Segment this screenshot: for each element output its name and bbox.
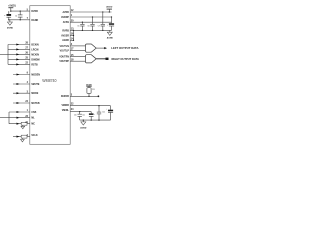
capacitor C1 (electrolytic, +5V decoupling) — [4, 11, 11, 20]
svg-text:MC: MC — [31, 124, 35, 126]
wire pin 18 VOUTRP — [59, 58, 85, 63]
wire pin 17 VOUTLP — [60, 48, 86, 53]
svg-text:RIGHT OUTPUT DATA: RIGHT OUTPUT DATA — [112, 57, 139, 61]
bracket (audio data bus) — [0, 45, 8, 65]
wire + pin 24 MUTEB — [13, 100, 40, 105]
svg-text:SMUTE: SMUTE — [31, 84, 40, 86]
wire + pin 21 MC (with pull-down) — [9, 122, 35, 129]
svg-text:C10: C10 — [74, 115, 77, 117]
svg-text:C12: C12 — [102, 112, 105, 114]
wire + pin 9 MODEN — [13, 73, 40, 77]
svg-text:+: + — [106, 108, 107, 110]
power flag +5V(D) — [8, 5, 16, 12]
svg-text:AGND: AGND — [62, 39, 69, 42]
svg-text:AVDD: AVDD — [106, 6, 112, 9]
wire pin 22 VMIDR rail — [61, 102, 110, 107]
wire pin 3 ZEROB with node — [61, 94, 99, 99]
capacitor C12 (VMIDR ceramic) — [97, 106, 105, 120]
power flag AVDD (pull-up) — [86, 83, 92, 87]
svg-text:MODEN: MODEN — [31, 75, 40, 77]
wire + pin 27 LRCIN — [8, 48, 39, 52]
capacitor C13 (VMIDR electrolytic) — [106, 106, 113, 120]
svg-text:+: + — [107, 24, 108, 26]
wire rail / pin 1 AVDDP — [61, 14, 112, 19]
ground AGND (VMID) — [80, 120, 87, 129]
svg-text:DGND: DGND — [31, 20, 38, 22]
svg-text:LEFT OUTPUT DATA: LEFT OUTPUT DATA — [111, 46, 138, 50]
wire left output + arrow — [96, 47, 107, 49]
svg-text:DVDD: DVDD — [31, 11, 38, 13]
svg-text:MODE: MODE — [31, 93, 38, 95]
wire + pin 25 DIN/DM — [8, 58, 40, 62]
wire rail / pin 20 AVSS — [63, 19, 112, 24]
svg-text:ZEROB: ZEROB — [61, 96, 69, 98]
power flag AVDD (analog supply) — [106, 6, 112, 12]
svg-text:VOUTLP: VOUTLP — [60, 50, 70, 52]
capacitor C10 (VMIDL ceramic) — [74, 112, 82, 121]
resistor R1 (pull-up) — [87, 88, 95, 97]
svg-text:VOUTLN: VOUTLN — [59, 46, 69, 48]
svg-text:AVDD: AVDD — [63, 11, 70, 14]
pin 7 DGND — [27, 18, 39, 22]
capacitor C2 (ceramic, +5V decoupling) — [15, 11, 22, 20]
wire pin 4 VOUTLN — [59, 43, 85, 48]
capacitor C6 — [87, 17, 94, 30]
svg-text:MCKIN: MCKIN — [31, 54, 39, 56]
svg-text:CSB: CSB — [31, 112, 36, 114]
svg-text:RVRB: RVRB — [62, 30, 69, 32]
svg-text:+: + — [94, 114, 95, 116]
svg-text:VMIDL: VMIDL — [62, 110, 70, 112]
svg-text:VMIDR: VMIDR — [61, 105, 69, 107]
wire + pin 28 BCKIN — [8, 43, 39, 47]
svg-text:R1: R1 — [92, 89, 94, 91]
svg-text:24: 24 — [71, 108, 74, 111]
wire + pin 2 SCLK (with pull-down) — [13, 135, 38, 142]
svg-text:22: 22 — [71, 102, 74, 105]
wire DVDD rail — [10, 10, 30, 11]
capacitor C11 (VMIDL electrolytic) — [82, 112, 95, 121]
wire AVDD rail / pin 12 AVDD — [63, 9, 112, 14]
svg-text:ML: ML — [31, 118, 35, 120]
svg-text:AVSSR: AVSSR — [61, 34, 69, 37]
svg-text:AGND: AGND — [80, 126, 87, 129]
svg-text:RSTB: RSTB — [31, 64, 38, 66]
svg-text:DIN/DM: DIN/DM — [31, 59, 39, 61]
svg-text:MUTEB: MUTEB — [31, 103, 40, 105]
wire + pin 23 ML — [9, 116, 35, 120]
svg-text:LRCIN: LRCIN — [31, 49, 38, 51]
wire right output + square terminal — [96, 58, 108, 60]
wire pin 15 VOUTRN — [59, 54, 85, 59]
svg-text:AVDDP: AVDDP — [61, 16, 69, 19]
summing buffer U3 (right channel) — [86, 55, 97, 63]
svg-text:VOUTRP: VOUTRP — [59, 61, 69, 63]
svg-text:+5V(D): +5V(D) — [8, 5, 16, 8]
wire DGND rail — [8, 19, 30, 20]
wire + pin 22 RSTB — [8, 63, 38, 67]
summing buffer U2 (left channel) — [86, 44, 97, 52]
wire + pin 26 MCKIN — [8, 53, 39, 57]
svg-text:+: + — [4, 15, 6, 17]
svg-text:C6: C6 — [87, 26, 89, 28]
capacitor C7 — [98, 12, 105, 30]
svg-text:C2: C2 — [15, 16, 17, 18]
wire + pin 1 CSB — [9, 110, 37, 114]
svg-text:VOUTRN: VOUTRN — [59, 57, 69, 59]
svg-text:AVSS: AVSS — [63, 21, 70, 24]
svg-text:C7: C7 — [98, 26, 100, 28]
svg-text:DGND: DGND — [7, 27, 14, 29]
svg-text:AGND: AGND — [107, 36, 114, 39]
op-amp U1 WM8740 DAC chip body — [30, 6, 70, 145]
wire + pin 3 MODE — [13, 91, 39, 95]
ground AGND (analog) — [107, 30, 114, 39]
svg-text:BCKIN: BCKIN — [31, 45, 39, 47]
svg-text:C5: C5 — [77, 26, 79, 28]
wire VMID ground rail — [80, 119, 111, 120]
ground bus (AVSS pins) — [61, 30, 74, 42]
wire pin 24 VMIDL rail — [62, 108, 91, 112]
svg-text:WM8740: WM8740 — [42, 78, 57, 83]
pin 5 DVDD — [27, 9, 39, 13]
capacitor C5 — [77, 22, 84, 30]
ground DGND — [7, 20, 14, 30]
bracket (control interface bus) — [0, 112, 9, 124]
wire analog ground rail / pin 13 — [62, 28, 111, 33]
svg-text:SCLK: SCLK — [31, 135, 38, 137]
wire + pin 4 SMUTE — [13, 81, 40, 86]
svg-text:C11: C11 — [82, 115, 85, 117]
capacitor C8 (electrolytic) — [107, 17, 114, 30]
